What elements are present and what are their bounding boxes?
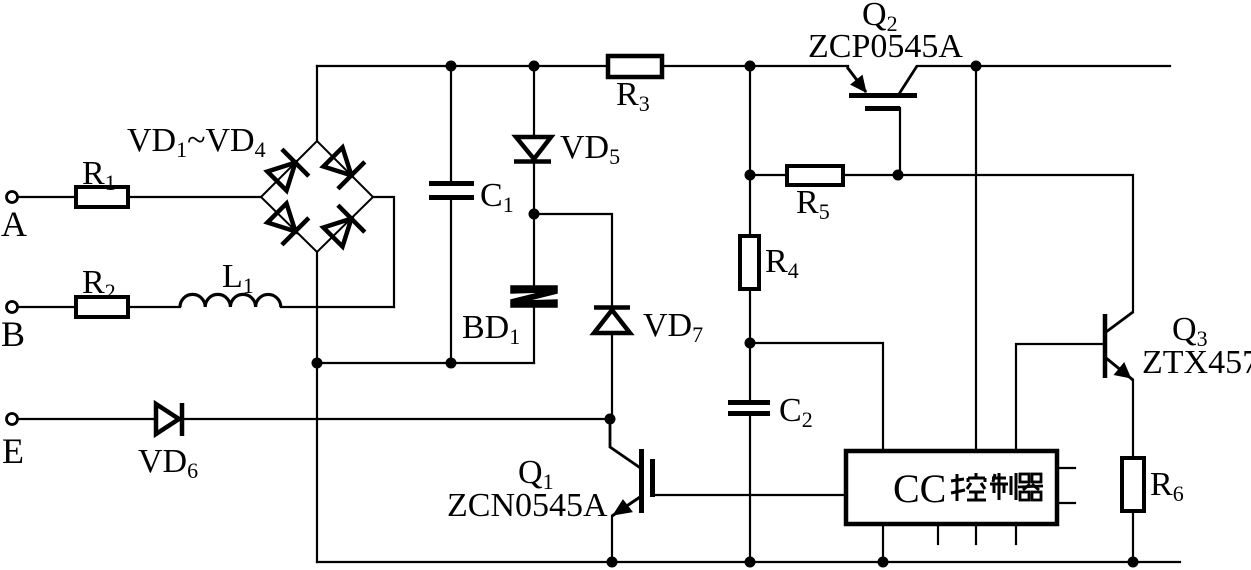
CC controller bottom stub 1 <box>937 524 939 544</box>
zener BD1 <box>511 286 557 307</box>
svg-text:R1: R1 <box>82 155 116 195</box>
svg-text:R2: R2 <box>82 264 116 304</box>
node top bus / R4 <box>745 61 756 72</box>
resistor R4 <box>740 236 759 289</box>
wire VD7 bottom to E node <box>611 334 613 419</box>
node CC pin on bus <box>878 557 889 568</box>
diode VD5 <box>514 137 551 162</box>
wire bottom bus <box>317 561 1180 563</box>
wire Q1 emitter to bus <box>611 516 613 562</box>
svg-text:BD1: BD1 <box>462 309 520 349</box>
bridge diode VD4 (bottom-right) <box>323 205 364 246</box>
svg-text:B: B <box>1 314 25 354</box>
capacitor C2 <box>728 403 770 414</box>
terminal E <box>7 414 18 425</box>
CC controller bottom pin to bus <box>882 524 884 562</box>
wire Q3 emitter to R6 <box>1132 380 1134 458</box>
wire Q2 gate lead down <box>899 108 901 175</box>
CC controller right stub 2 <box>1057 502 1075 504</box>
wire R5 right to Q3 collector corner <box>843 175 1133 312</box>
wire C2 node to CC controller top <box>750 343 883 451</box>
resistor R3 <box>608 56 662 77</box>
wire VD6 to Q1 collector node <box>183 418 610 420</box>
svg-text:R3: R3 <box>616 76 650 116</box>
wire A to R1 <box>18 196 76 198</box>
svg-text:ZTX457: ZTX457 <box>1142 344 1251 381</box>
transistor Q3 ZTX457 <box>1105 312 1133 380</box>
CC controller box U1 <box>846 451 1057 524</box>
wire Q1 collector lead <box>610 419 639 467</box>
svg-text:VD5: VD5 <box>560 129 620 169</box>
svg-text:C2: C2 <box>779 392 813 432</box>
CC controller bottom stub 3 <box>1015 524 1017 544</box>
wire top bus Q2 to right end <box>917 65 1170 67</box>
wire Q2 collector vertical into CC controller <box>975 66 977 451</box>
node bridge minus <box>312 358 323 369</box>
wire BD1 top <box>533 214 535 286</box>
node top bus / C1 <box>446 61 457 72</box>
wire VD5 bottom to node <box>533 162 535 214</box>
node Q2 gate / R5 <box>893 170 904 181</box>
svg-text:R4: R4 <box>765 243 799 283</box>
hanzi 控 <box>951 473 986 501</box>
bridge diamond wires <box>261 141 373 252</box>
wire Q3 base to CC controller <box>1016 344 1104 451</box>
svg-text:E: E <box>2 431 24 471</box>
svg-text:ZCN0545A: ZCN0545A <box>447 487 608 524</box>
node top bus / Q2 collector <box>971 61 982 72</box>
wire R5 left <box>750 174 787 176</box>
diode VD6 <box>156 403 182 436</box>
node R4 / C2 <box>745 338 756 349</box>
CC controller bottom stub 2 <box>975 524 977 544</box>
hanzi 制 <box>990 473 1016 500</box>
diode VD7 <box>594 308 630 334</box>
wire bridge bottom down <box>316 252 318 363</box>
wire R4 to C2 node <box>749 289 751 400</box>
wire R4 branch top <box>749 66 751 236</box>
wire node to VD7 top <box>534 214 612 306</box>
node VD5 / BD1 / VD7 <box>529 209 540 220</box>
wire VD5 top <box>533 66 535 137</box>
svg-text:R5: R5 <box>796 184 830 224</box>
terminal A <box>7 192 18 203</box>
wire bottom-left vertical to bottom bus <box>316 363 318 562</box>
wire top bus R3 to Q2 <box>662 65 848 67</box>
wire C1 bottom <box>450 200 452 363</box>
wire bridge right corner jog <box>373 197 394 307</box>
svg-text:ZCP0545A: ZCP0545A <box>808 28 963 65</box>
wire R6 to bus <box>1132 511 1134 562</box>
svg-text:L1: L1 <box>222 258 254 298</box>
inductor L1 <box>180 294 281 307</box>
wire C1 top <box>450 66 452 181</box>
svg-text:VD6: VD6 <box>138 443 198 483</box>
resistor R5 <box>787 166 843 185</box>
svg-text:VD1~VD4: VD1~VD4 <box>127 122 266 162</box>
transistor Q2 ZCP0545A <box>847 66 917 109</box>
node E / VD7 / Q1 <box>605 414 616 425</box>
hanzi 器 <box>1018 474 1043 500</box>
svg-text:CC: CC <box>893 466 946 511</box>
wire R1 to bridge left corner <box>128 196 261 198</box>
node C1 bottom <box>446 358 457 369</box>
svg-text:C1: C1 <box>480 177 514 217</box>
svg-text:VD7: VD7 <box>643 307 703 347</box>
node C2 on bus <box>745 557 756 568</box>
wire net y363 (bridge minus / C1 / BD1) <box>317 362 534 364</box>
bridge diode VD3 (bottom-left) <box>267 203 308 244</box>
resistor R2 <box>76 297 128 317</box>
wire top bus left segment <box>317 65 608 67</box>
terminal B <box>7 302 18 313</box>
wire B to R2 <box>18 306 76 308</box>
node top bus / VD5 <box>529 61 540 72</box>
resistor R6 <box>1122 458 1144 511</box>
transistor Q1 ZCN0545A <box>612 449 653 516</box>
wire E to VD6 <box>18 418 155 420</box>
resistor R1 <box>76 187 128 207</box>
wire C2 bottom to bus <box>749 416 751 562</box>
capacitor C1 <box>429 184 474 198</box>
wire R2 to L1 <box>128 306 180 308</box>
node Q1 emitter on bus <box>607 557 618 568</box>
svg-text:A: A <box>1 204 27 244</box>
svg-text:R6: R6 <box>1150 466 1184 506</box>
bridge diode VD1 (top-left) <box>267 149 308 190</box>
node R4 / R5 <box>745 170 756 181</box>
wire bridge top to bus <box>316 66 318 141</box>
wire L1 to right jog <box>281 306 394 308</box>
wire Q1 gate lead to CC controller <box>654 494 846 496</box>
wire BD1 bottom <box>533 308 535 363</box>
CC controller right stub 1 <box>1057 467 1075 469</box>
node R6 on bus <box>1128 557 1139 568</box>
bridge diode VD2 (top-right) <box>323 147 364 188</box>
